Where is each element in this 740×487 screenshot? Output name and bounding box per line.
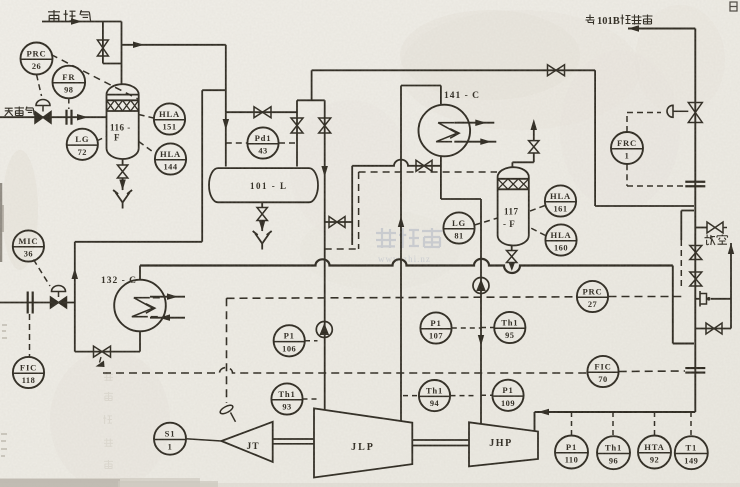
dashed instrument header y298: [227, 297, 577, 299]
wire natural-gas line: [0, 116, 107, 118]
actuator MIC dome: [52, 286, 66, 292]
scan edge artifacts: [0, 183, 218, 487]
wire jog y90.2 left: [202, 89, 226, 91]
pump symbol on JLP riser: [316, 322, 332, 338]
arrow into 101-L: [223, 119, 230, 130]
arrow branch flow right: [133, 42, 144, 49]
instrument Th1-95: [494, 312, 525, 343]
pump symbol on JHP riser: [473, 278, 489, 294]
wire inlet line y302.5: [0, 302, 75, 304]
instrument P1-107: [420, 312, 451, 343]
valve vent fangkong: [707, 222, 727, 233]
wire 101-L riser x297: [296, 100, 298, 166]
wire x202.2 down: [201, 90, 203, 242]
wire bypass branch y328.5: [695, 328, 731, 330]
wire fuel-gas line y21.5: [42, 21, 122, 23]
valve riser x324.7: [319, 118, 331, 133]
wire main steam header y265.5: [140, 259, 673, 273]
turbine JLP: [314, 408, 412, 477]
wire 101-L left riser x225.8: [225, 112, 227, 166]
dashed box x358.6: [358, 172, 360, 249]
wire 116-F drain line: [122, 178, 124, 190]
dashed HLA-161 to vessel: [529, 206, 545, 212]
arrow fuel-gas flow: [71, 18, 82, 25]
vessel 116-F: [107, 84, 139, 159]
wire qu-101B line y28.5: [628, 28, 695, 30]
instrument Th1-93: [271, 383, 302, 414]
instrument S1-1: [154, 423, 186, 455]
arrow 101-L drain: [259, 221, 266, 232]
dashed HLA-144 to vessel: [139, 142, 155, 154]
actuator JT flag: [219, 404, 236, 422]
dashed Pd1-43 taps: [226, 142, 297, 144]
arrow NG flow: [77, 114, 88, 121]
valve PRC control NG: [35, 106, 51, 124]
wire riser x324.7 upper: [324, 100, 326, 222]
wire 101-L drain line: [261, 221, 263, 232]
dashed HLA-160 to vessel: [529, 227, 546, 236]
drain funnel Y 101-L: [253, 231, 272, 250]
dashed FR-98 to orifice: [68, 99, 70, 110]
wire x481 pump line: [480, 199, 482, 424]
arrow 116-F drain: [119, 180, 126, 191]
wire 101-L valve line y112.2: [226, 111, 297, 113]
valve y165.8: [416, 160, 432, 171]
wire x324.7 to JLP: [324, 222, 326, 410]
faint bleedthrough text: [103, 372, 113, 469]
actuator PRC dome: [36, 100, 50, 106]
wire JHP inlet drop: [534, 412, 536, 431]
instrument HLA-160: [545, 224, 576, 255]
instrument LG-72: [67, 129, 98, 160]
instrument PRC-26: [21, 43, 53, 75]
instrument PRC-27: [577, 281, 608, 312]
dashed FRC-1 up: [627, 113, 661, 133]
turbine JHP: [469, 422, 538, 466]
valve MIC control: [51, 292, 67, 309]
instrument FR-98: [53, 66, 86, 99]
wire branch valve line y222: [325, 221, 353, 223]
wire 141-C bottom riser: [440, 156, 442, 199]
vessel 101-L: [209, 168, 318, 202]
valve D upper: [690, 246, 702, 260]
arrow NG riser up: [72, 268, 79, 279]
orifice FR-98: [67, 110, 72, 125]
label fangkong (vent): [705, 235, 728, 246]
wire regulator branch y298.8: [695, 298, 731, 300]
dashed PRC-26 to valve: [37, 75, 42, 97]
wire 117-F drain stem: [511, 245, 513, 250]
shaft JT-JLP: [273, 439, 314, 444]
dashed P1-107 tap: [452, 327, 481, 329]
wire y165.8 line: [352, 160, 441, 166]
wire main header drop x672.8: [672, 266, 674, 344]
wire riser x225.8 down: [225, 45, 227, 112]
valve 101-L inlet: [254, 107, 271, 118]
arrow qu-101B left: [628, 25, 639, 32]
wire 117-F vent up: [533, 126, 535, 141]
orifice FIC-118: [28, 292, 33, 314]
instrument P1-110: [555, 436, 588, 469]
valve riser x297: [291, 118, 303, 133]
dashed y172 right: [359, 171, 497, 173]
dashed Th1-95 tap: [481, 327, 494, 329]
wire x595.1 down: [594, 70, 596, 206]
wire 101-L drain stem: [261, 202, 263, 207]
wire vent stub: [695, 227, 707, 229]
actuator FRC dome: [667, 105, 688, 117]
wire stub to bottom instrument 2: [612, 412, 614, 436]
wire y85.5: [401, 85, 441, 87]
arrow 117-F vent up: [531, 119, 538, 130]
instrument T1-149: [675, 436, 708, 469]
dashed FIC-70 line y372: [103, 368, 587, 374]
valve bypass: [706, 323, 722, 334]
wire 132-C bottom riser: [139, 331, 141, 351]
valve 116-F drain: [117, 165, 127, 178]
dashed LG-81 to vessel: [475, 218, 498, 225]
wire 101-L header y100.3: [297, 99, 325, 101]
dashed MIC-36 to actuator: [34, 260, 51, 287]
corner mark top-right: [730, 2, 737, 11]
flag under valve: [96, 357, 105, 367]
dashed FIC-70 right: [619, 370, 685, 373]
instrument P1-109: [492, 380, 523, 411]
valve branch y222: [329, 217, 345, 228]
instrument Th1-94: [419, 380, 450, 411]
regulator symbol: [700, 291, 711, 307]
instrument P1-106: [274, 325, 305, 356]
valve 117-F vent: [529, 141, 539, 153]
dashed PRC-26 diagonal to 116-F: [51, 55, 138, 100]
wire branch y44.8 to 101-L: [122, 44, 226, 46]
wire NG riser x74.8: [74, 242, 76, 352]
arrow JHP supply left: [538, 409, 549, 415]
instrument HLA-144: [155, 143, 186, 174]
arrow vent stack up: [728, 243, 734, 254]
dashed FIC-118 to orifice: [29, 314, 31, 357]
wire top line y70.3: [312, 69, 595, 71]
shaft JLP-JHP: [412, 440, 469, 446]
wire S1 link: [186, 439, 222, 441]
watermark: [376, 228, 442, 264]
wire stub to bottom instrument 1: [571, 412, 573, 436]
instrument FRC-1: [611, 132, 643, 164]
instrument Pd1-43: [247, 127, 278, 158]
wire y241.8 left: [75, 241, 202, 243]
instrument FIC-118: [13, 357, 44, 388]
dashed Th1-94 taps: [403, 395, 474, 397]
wire 117-F top stub: [512, 153, 533, 168]
orifice FRC: [685, 182, 705, 187]
valve D lower: [690, 272, 702, 286]
dashed PRC-27 right: [609, 296, 682, 298]
wire vent stack x731: [730, 243, 732, 329]
dashed HLA-151 to vessel: [139, 115, 154, 119]
dashed P1-106 tap: [305, 340, 318, 342]
label tianranqi (natural gas): [5, 107, 35, 117]
arrow x324.7 down: [321, 166, 328, 177]
wire 141-C top riser: [440, 86, 442, 106]
wire x401 down to JLP: [400, 86, 402, 422]
wire 116-F drain stem: [122, 159, 124, 165]
heat-exchanger 141-C: [419, 91, 497, 156]
drain funnel Y 116-F: [113, 190, 132, 209]
dashed box y249: [325, 248, 359, 250]
valve FRC control: [688, 103, 702, 123]
turbine JT: [221, 422, 272, 462]
instrument HTA-92: [638, 436, 671, 469]
instrument Th1-96: [597, 436, 630, 469]
wire right main vertical D: [694, 29, 696, 413]
wire 116-F top riser: [121, 22, 123, 86]
wire stub to bottom instrument 4: [690, 412, 692, 436]
instrument LG-81: [443, 212, 474, 243]
wire y199 right: [441, 198, 481, 200]
instrument MIC-36: [13, 230, 44, 261]
wire main header to D y343.5: [673, 343, 694, 345]
valve fuel bypass: [97, 40, 108, 56]
valve top line: [548, 65, 565, 76]
instrument HLA-151: [154, 103, 185, 134]
wire 117-F drain line: [511, 263, 513, 265]
dashed LG-72 to vessel: [98, 137, 107, 141]
dashed JT signal x226.5: [226, 298, 228, 403]
arrow x401 up: [398, 216, 404, 227]
dashed FRC-1 down: [627, 164, 685, 186]
dashed PRC tap x681.3: [680, 240, 682, 289]
wire 132-C top riser: [139, 266, 141, 280]
wire x352.2 down: [351, 166, 353, 245]
orifice FIC-70: [685, 368, 705, 373]
heat-exchanger 132-C: [101, 276, 185, 331]
arrow 117-F drain: [509, 263, 515, 271]
wire stub to bottom instrument 3: [654, 412, 656, 436]
instrument HLA-161: [545, 185, 576, 216]
label qu 101B yureduan: [586, 15, 653, 28]
label ranliaoqi (fuel gas): [48, 10, 91, 22]
valve 117-F drain: [507, 251, 517, 263]
valve 132-C feed: [94, 346, 111, 357]
wire 132-C feed y351.6: [75, 351, 140, 353]
instrument FIC-70: [587, 356, 618, 387]
arrow x481 down: [478, 335, 484, 346]
wire PRC tap stub: [681, 211, 694, 241]
wire y206 right: [595, 205, 694, 207]
vessel 117-F: [498, 167, 529, 245]
wire fuel bypass riser x102.9: [102, 22, 104, 64]
dashed Th1-93 tap: [303, 398, 318, 400]
dashed P1-109 tap: [481, 394, 493, 396]
wire JHP supply y412: [535, 411, 696, 413]
wire mid riser x311.6: [311, 70, 313, 100]
valve 101-L drain: [257, 208, 267, 221]
wire fuel jog y63.5: [103, 63, 122, 65]
